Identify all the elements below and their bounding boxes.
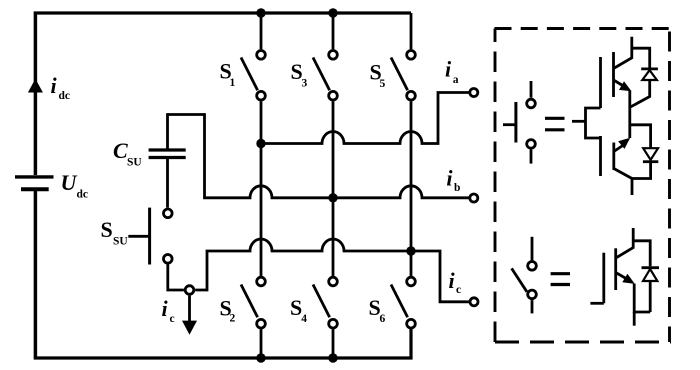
svg-text:S: S — [101, 217, 113, 242]
svg-text:2: 2 — [230, 312, 236, 324]
svg-text:3: 3 — [302, 78, 308, 90]
svg-text:SU: SU — [127, 157, 142, 169]
svg-text:5: 5 — [380, 78, 386, 90]
svg-text:c: c — [456, 284, 461, 296]
svg-text:6: 6 — [380, 313, 386, 325]
svg-text:dc: dc — [77, 188, 89, 200]
svg-text:dc: dc — [59, 90, 71, 102]
svg-text:i: i — [51, 73, 58, 98]
svg-text:i: i — [162, 296, 169, 321]
svg-text:SU: SU — [113, 235, 128, 247]
svg-text:4: 4 — [301, 313, 307, 325]
svg-text:C: C — [113, 138, 128, 163]
svg-text:U: U — [61, 170, 78, 195]
svg-text:i: i — [446, 165, 453, 190]
svg-text:i: i — [449, 268, 456, 293]
svg-text:1: 1 — [230, 77, 236, 89]
svg-text:a: a — [453, 74, 459, 86]
svg-text:i: i — [445, 57, 452, 82]
svg-text:b: b — [454, 182, 460, 194]
svg-text:c: c — [170, 313, 175, 325]
